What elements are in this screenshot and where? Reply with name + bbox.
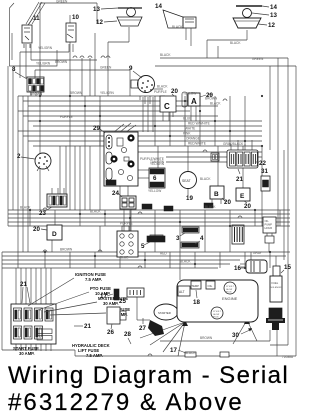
starter	[148, 304, 178, 336]
svg-text:SOLENOID: SOLENOID	[271, 287, 283, 289]
wire: left vertical bus	[2, 66, 28, 350]
wire: bottom run	[2, 252, 296, 356]
svg-text:PURPLE: PURPLE	[120, 222, 133, 226]
headlamp 13 center	[93, 6, 142, 17]
wire: mid vertical links	[40, 33, 284, 280]
connector 26	[107, 307, 126, 336]
svg-text:19: 19	[186, 195, 193, 202]
connector 24	[112, 190, 136, 209]
svg-text:BLACK: BLACK	[160, 53, 171, 57]
svg-text:ORANGE: ORANGE	[186, 137, 200, 141]
label 21 right	[74, 323, 91, 330]
connector 8	[12, 66, 44, 96]
wire: engine fan-out	[140, 318, 257, 356]
svg-text:14: 14	[270, 4, 277, 11]
svg-text:B: B	[214, 191, 219, 198]
relay B 20	[210, 186, 231, 206]
svg-text:72088A: 72088A	[282, 355, 294, 359]
svg-text:BROWN: BROWN	[205, 97, 218, 101]
svg-text:12 VOLT: 12 VOLT	[213, 311, 222, 313]
glow plug bottom	[211, 307, 223, 319]
svg-text:28: 28	[124, 331, 131, 338]
relay 17 bottom	[170, 347, 229, 357]
ignition switch 2	[17, 153, 51, 171]
svg-text:13: 13	[270, 12, 277, 19]
engine block 18	[177, 280, 258, 322]
svg-text:TEMP: TEMP	[192, 284, 200, 288]
connector top 26	[127, 288, 144, 297]
svg-text:BROWN: BROWN	[200, 336, 213, 340]
wire: headlight stems	[108, 27, 247, 60]
svg-text:GREEN: GREEN	[56, 0, 68, 4]
svg-text:16: 16	[234, 265, 241, 272]
diode module 6	[149, 168, 165, 188]
svg-text:14: 14	[155, 3, 162, 10]
svg-text:21: 21	[20, 281, 27, 288]
fuse labels	[13, 272, 130, 358]
wire: fuse box feeders	[16, 268, 51, 304]
svg-text:BROWN: BROWN	[60, 248, 73, 252]
svg-text:12: 12	[96, 19, 103, 26]
svg-text:YELLOW: YELLOW	[148, 189, 161, 193]
svg-text:29: 29	[93, 125, 100, 132]
svg-text:BLACK: BLACK	[205, 205, 216, 209]
svg-text:31: 31	[261, 168, 268, 175]
svg-text:GREEN: GREEN	[252, 57, 264, 61]
svg-text:2: 2	[17, 153, 21, 160]
svg-text:OIL: OIL	[208, 284, 213, 288]
svg-text:5: 5	[141, 243, 145, 250]
svg-text:YEL/GRN: YEL/GRN	[36, 62, 51, 66]
svg-text:21: 21	[84, 323, 91, 330]
svg-text:BROWN: BROWN	[70, 91, 83, 95]
svg-text:PURPLE: PURPLE	[154, 90, 167, 94]
fuse 31	[261, 168, 270, 191]
label 21 top	[20, 281, 30, 303]
wire: top green harness	[26, 2, 97, 152]
plug small right	[164, 203, 213, 211]
headlamp 13 right	[243, 9, 278, 20]
striped connector 27	[232, 225, 244, 244]
svg-text:SEAT: SEAT	[182, 179, 191, 183]
fuse 17 25	[100, 289, 126, 305]
svg-text:BLACK: BLACK	[185, 351, 196, 355]
svg-text:ALT: ALT	[179, 290, 185, 294]
svg-text:D: D	[52, 231, 57, 238]
wire: mid band connectors	[39, 95, 263, 147]
headlamp 12 center	[96, 17, 142, 26]
relay block 5	[117, 226, 165, 257]
fuel pump 16	[234, 260, 267, 273]
svg-text:13: 13	[93, 6, 100, 13]
svg-text:BLACK: BLACK	[210, 102, 221, 106]
svg-text:20: 20	[33, 226, 40, 233]
wire: mid-right horizontals	[137, 152, 262, 178]
fuel solenoid 15	[270, 264, 291, 302]
svg-text:RED W/WHITE: RED W/WHITE	[188, 122, 210, 126]
svg-text:ENGINE: ENGINE	[222, 296, 238, 301]
plug 3	[176, 227, 199, 242]
svg-text:HOUR: HOUR	[265, 226, 273, 230]
svg-text:BLUE: BLUE	[120, 256, 128, 260]
svg-text:BLACK: BLACK	[172, 25, 183, 29]
svg-text:E: E	[240, 193, 245, 200]
svg-text:12: 12	[268, 22, 275, 29]
svg-text:PLUG: PLUG	[213, 317, 219, 319]
wire: second band y210	[8, 209, 290, 227]
plug small left	[142, 204, 152, 209]
svg-text:PURPLE: PURPLE	[60, 115, 73, 119]
svg-text:RED: RED	[160, 252, 167, 256]
connector C 20	[131, 80, 178, 121]
svg-text:7.5 AMP.: 7.5 AMP.	[86, 353, 103, 358]
svg-text:BLACK: BLACK	[20, 206, 31, 210]
svg-text:17: 17	[170, 347, 177, 354]
fuse block	[11, 304, 56, 344]
svg-text:11: 11	[33, 15, 40, 22]
svg-text:15: 15	[284, 264, 291, 271]
svg-text:9: 9	[129, 65, 133, 72]
svg-text:BROWN: BROWN	[55, 60, 68, 64]
svg-text:20: 20	[224, 199, 231, 206]
plug 4	[181, 235, 204, 248]
svg-text:12 VOLT: 12 VOLT	[226, 286, 235, 288]
svg-text:PLUG: PLUG	[226, 292, 232, 294]
svg-text:30 AMP.: 30 AMP.	[19, 351, 35, 356]
svg-text:BLACK: BLACK	[200, 177, 211, 181]
svg-text:OIL: OIL	[265, 219, 270, 223]
svg-text:BLACK: BLACK	[157, 85, 168, 89]
svg-text:7.5 AMP.: 7.5 AMP.	[85, 277, 102, 282]
svg-text:PUMP: PUMP	[265, 223, 273, 227]
wire: loop around relay 11	[10, 3, 58, 66]
svg-text:WHITE: WHITE	[185, 127, 195, 131]
wire: third band y252	[2, 251, 290, 269]
svg-text:6: 6	[153, 175, 157, 182]
svg-text:YELLOW: YELLOW	[183, 92, 196, 96]
svg-text:BROWN: BROWN	[30, 92, 43, 96]
svg-text:17: 17	[100, 293, 107, 300]
svg-text:FUEL: FUEL	[272, 281, 279, 285]
svg-text:A: A	[191, 97, 197, 106]
wire: right top bus	[150, 40, 296, 356]
svg-text:10: 10	[72, 14, 79, 21]
svg-text:18: 18	[193, 299, 200, 306]
svg-text:BLACK: BLACK	[230, 41, 241, 45]
svg-text:27: 27	[139, 325, 146, 332]
svg-text:3: 3	[176, 235, 180, 242]
relay D 20	[33, 225, 62, 240]
svg-text:20: 20	[244, 203, 251, 210]
svg-text:25: 25	[119, 298, 126, 305]
label 27 28	[124, 318, 146, 344]
svg-text:PINK: PINK	[183, 132, 191, 136]
svg-text:21: 21	[236, 176, 243, 183]
svg-text:30: 30	[232, 332, 239, 339]
wire: fuse box tails	[16, 344, 51, 351]
relay 11	[22, 15, 40, 48]
svg-text:YEL/CRN: YEL/CRN	[100, 91, 115, 95]
relay E 20	[236, 188, 251, 210]
wire hops	[43, 56, 242, 356]
svg-text:BLUE: BLUE	[183, 117, 191, 121]
svg-text:30 AMP.: 30 AMP.	[103, 301, 119, 306]
relay 10	[66, 14, 79, 42]
headlamp 14 right bar	[236, 4, 277, 11]
svg-text:C: C	[164, 102, 170, 111]
relay A 20	[182, 92, 213, 121]
svg-text:BLACK: BLACK	[180, 260, 191, 264]
connector bank 22	[211, 140, 266, 183]
seat switch 19	[180, 172, 197, 203]
svg-text:GREEN: GREEN	[100, 66, 112, 70]
horn 14 left	[155, 3, 196, 46]
wire name labels	[20, 0, 264, 355]
svg-text:TAN/GRN: TAN/GRN	[150, 160, 165, 164]
svg-text:4: 4	[200, 235, 204, 242]
headlamp 12 right	[233, 18, 275, 29]
label 30	[232, 328, 252, 339]
svg-text:RED/WHITE: RED/WHITE	[188, 142, 206, 146]
starter solenoid	[266, 308, 285, 330]
glow plug top	[224, 282, 236, 294]
plug left of 5	[150, 235, 163, 241]
key switch 9	[129, 65, 155, 104]
hour meter	[263, 217, 276, 252]
connector 23	[39, 188, 67, 217]
svg-text:YEL/GRN: YEL/GRN	[38, 46, 53, 50]
svg-text:GRAY/BLACK: GRAY/BLACK	[223, 142, 244, 146]
wire: main horizontal harness band	[18, 96, 262, 146]
svg-text:GRAY: GRAY	[253, 251, 263, 255]
svg-text:22: 22	[259, 160, 266, 167]
svg-text:BLACK: BLACK	[90, 210, 101, 214]
control module 29	[93, 123, 138, 186]
wire: relay outputs to harness	[20, 44, 130, 78]
svg-text:26: 26	[107, 329, 114, 336]
svg-text:STARTER: STARTER	[158, 311, 171, 315]
